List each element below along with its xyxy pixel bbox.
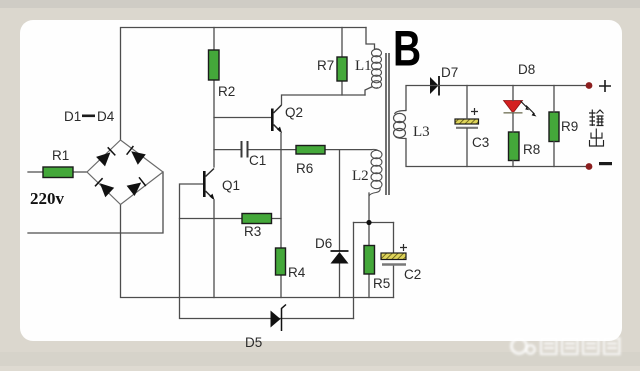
resistor R8 <box>509 132 520 161</box>
wire Q2 emitter / R4 vertical <box>280 133 282 298</box>
wire R3 row <box>180 218 282 220</box>
wire C2 leads <box>393 223 395 298</box>
wire L1 bottom lead <box>365 87 372 95</box>
wire R9 leads <box>553 86 555 167</box>
watermark text <box>541 339 620 355</box>
svg-text:D8: D8 <box>518 62 535 77</box>
wire C1 right to R6 <box>249 149 297 151</box>
wire secondary top <box>406 86 589 111</box>
secondary loop wires <box>406 86 589 167</box>
label B (transformer) <box>393 20 421 77</box>
label output plus <box>599 80 611 92</box>
label chu (output char 2) <box>590 129 604 147</box>
wire Q1 emitter vertical <box>213 200 215 298</box>
diode D2 (bridge top-right) <box>127 146 146 165</box>
wire R7 leads <box>341 28 343 96</box>
wire node horizontal to C2 <box>354 222 394 224</box>
inductor L1 (transformer primary top) <box>372 49 382 89</box>
diode D1 (bridge top-left) <box>96 147 115 166</box>
svg-text:Q2: Q2 <box>285 105 303 120</box>
label output minus <box>599 162 612 165</box>
svg-text:D4: D4 <box>97 109 115 124</box>
inductor L3 (secondary winding) <box>394 111 407 139</box>
svg-text:L2: L2 <box>352 168 369 184</box>
svg-text:D5: D5 <box>245 335 262 350</box>
watermark wukong logo <box>512 339 535 354</box>
resistor R9 <box>549 112 559 142</box>
svg-text:C1: C1 <box>249 153 266 168</box>
svg-text:R5: R5 <box>373 276 390 291</box>
wire L1 top lead <box>366 28 375 50</box>
label shu (output char 1) <box>589 110 604 127</box>
wire ground bottom rail <box>121 205 394 298</box>
svg-text:B: B <box>393 20 421 77</box>
diode D3 (bridge bottom-left) <box>95 178 114 197</box>
svg-text:D6: D6 <box>315 236 332 251</box>
wire Q1 base drop <box>180 184 204 298</box>
svg-text:220v: 220v <box>30 189 65 208</box>
wire R2 branch vertical <box>213 28 215 168</box>
diode D5 <box>271 305 287 332</box>
resistor R4 <box>276 248 286 275</box>
wire D5 bottom run <box>180 298 354 319</box>
transistor Q1 <box>203 169 215 201</box>
resistor R1 <box>43 167 73 178</box>
wire R5 leads <box>368 223 370 298</box>
wire top supply rail <box>121 28 367 141</box>
wire AC top lead with R1 <box>28 171 87 173</box>
wire LED / R8 leads <box>512 86 514 167</box>
capacitor C1 <box>242 141 248 158</box>
wire C3 leads <box>466 86 468 167</box>
capacitor C2 <box>381 244 407 265</box>
label L3 <box>413 124 430 140</box>
bridge rectifier D1-D4 diamond <box>87 140 163 205</box>
svg-text:C2: C2 <box>404 267 421 282</box>
node output minus terminal <box>586 163 593 170</box>
svg-text:D7: D7 <box>441 65 458 80</box>
node output plus terminal <box>586 82 593 89</box>
wire secondary bottom <box>406 139 589 167</box>
resistor R3 <box>242 214 272 224</box>
resistor R7 <box>337 57 347 81</box>
label D1-D4 dash <box>82 115 95 118</box>
capacitor C3 <box>455 108 479 128</box>
label L2 <box>352 168 369 184</box>
LED D8 <box>504 101 537 117</box>
svg-text:R9: R9 <box>561 119 578 134</box>
wire C1 left <box>214 149 241 151</box>
svg-text:R8: R8 <box>523 142 540 157</box>
diode D6 <box>331 251 349 264</box>
transformer core <box>386 53 389 195</box>
label L1 <box>355 58 372 74</box>
resistor R6 <box>296 146 325 155</box>
wire AC bottom lead <box>28 172 163 233</box>
svg-text:R3: R3 <box>244 224 261 239</box>
wire L2 bottom to node <box>368 193 370 223</box>
label 220v <box>30 189 65 208</box>
svg-text:R2: R2 <box>218 84 235 99</box>
svg-text:C3: C3 <box>472 135 489 150</box>
svg-text:R7: R7 <box>317 58 334 73</box>
resistor R2 <box>209 50 220 80</box>
svg-text:D1: D1 <box>64 109 81 124</box>
inductor L2 (transformer primary bottom) <box>369 149 382 196</box>
transistor Q2 <box>271 105 282 133</box>
svg-text:R6: R6 <box>296 161 313 176</box>
resistor R5 <box>364 246 375 275</box>
svg-text:L1: L1 <box>355 58 372 74</box>
wire R6 to L2 <box>325 149 372 151</box>
svg-text:Q1: Q1 <box>222 178 240 193</box>
svg-text:L3: L3 <box>413 124 430 140</box>
diode D4 (bridge bottom-right) <box>127 177 146 196</box>
diode D7 <box>430 76 439 96</box>
node L2/R5/C2 junction <box>366 220 371 225</box>
svg-text:R1: R1 <box>52 148 69 163</box>
wire Q2 base <box>214 117 271 119</box>
wire D5 right riser <box>353 223 355 319</box>
wire D6 branch vertical <box>339 150 341 298</box>
wire Q2 collector run <box>282 95 366 105</box>
svg-text:R4: R4 <box>288 265 306 280</box>
